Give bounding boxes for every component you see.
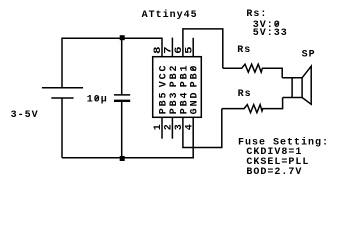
- svg-text:4: 4: [184, 122, 195, 130]
- svg-text:VCC: VCC: [159, 64, 170, 88]
- slash of zero in PB0: [191, 67, 196, 71]
- resistor Rs bottom: [222, 98, 283, 113]
- svg-text:ATtiny45: ATtiny45: [142, 9, 198, 21]
- slash of zero in 3V:0: [275, 22, 279, 26]
- svg-text:7: 7: [164, 47, 175, 54]
- svg-text:1: 1: [153, 122, 164, 130]
- wire capacitor bottom lead: [121, 102, 123, 158]
- svg-text:10μ: 10μ: [87, 95, 108, 106]
- pin 2 stub: [171, 117, 173, 138]
- svg-text:PB3: PB3: [169, 91, 180, 115]
- wire VCC rail with battery positive lead and pin 8 lead: [62, 38, 162, 87]
- resistor Rs top: [223, 64, 282, 78]
- pin 1 stub: [161, 117, 163, 138]
- capacitor C 10u: [114, 95, 130, 101]
- op IC body ATtiny45 U1: [153, 57, 202, 118]
- pin 5 stub: [192, 38, 194, 57]
- svg-text:3-5V: 3-5V: [11, 110, 39, 121]
- svg-text:8: 8: [153, 47, 164, 54]
- battery 3-5V: [42, 88, 83, 98]
- wire GND rail with pin 4 lead: [62, 117, 193, 158]
- wire PB1 pin 6 to resistor Rs top: [183, 29, 223, 68]
- junction VCC node: [120, 35, 125, 40]
- wire PB4 pin 3 to resistor Rs bottom: [183, 109, 222, 148]
- speaker SP: [282, 66, 311, 104]
- wire capacitor top lead: [121, 38, 123, 94]
- svg-text:GND: GND: [190, 91, 201, 115]
- slash of zero in 10u: [95, 96, 98, 101]
- svg-text:2: 2: [164, 122, 175, 130]
- wire battery negative lead: [61, 98, 63, 158]
- svg-text:SP: SP: [302, 50, 316, 61]
- svg-text:5V:33: 5V:33: [253, 28, 288, 39]
- svg-text:Rs:: Rs:: [246, 9, 267, 20]
- svg-text:5: 5: [184, 47, 195, 54]
- svg-text:PB2: PB2: [169, 64, 180, 88]
- svg-text:PB5: PB5: [159, 91, 170, 115]
- svg-text:Rs: Rs: [238, 89, 252, 100]
- svg-text:Rs: Rs: [237, 45, 251, 56]
- pin 7 stub: [171, 38, 173, 57]
- junction GND node: [120, 156, 125, 161]
- svg-text:BOD=2.7V: BOD=2.7V: [246, 167, 302, 178]
